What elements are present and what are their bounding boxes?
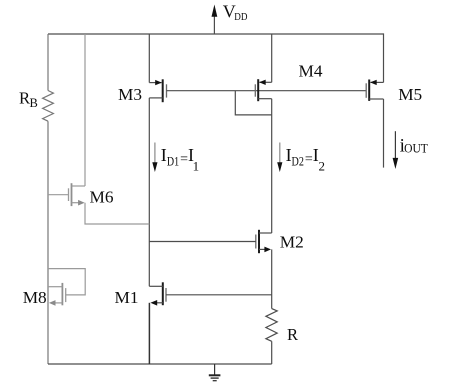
wire: M1 gate to R top node [166,294,272,296]
svg-text:R: R [287,325,299,344]
resistor RB [43,91,54,122]
label ID2 = I2 [286,145,325,174]
current arrow iOUT [393,131,399,169]
svg-text:=: = [180,152,188,167]
transistor M3 (PMOS, leads left to x=149.3) [149,79,166,102]
svg-text:DD: DD [234,12,248,23]
wire: M2 gate line to left column [149,241,256,243]
VDD arrow (supply) [212,5,218,35]
wire: M3 source up to rail [148,34,150,83]
wire: left rail below RB down to bottom rail [47,121,49,364]
wire: R bottom to ground rail [271,341,273,364]
svg-text:B: B [30,96,38,110]
current arrow ID1 [152,143,157,173]
transistor M4 (PMOS, leads right to x=271.7, diode-connected) [255,79,271,101]
wire: M2 source down to resistor R [271,249,273,308]
svg-text:D2: D2 [292,153,304,168]
svg-text:1: 1 [193,158,200,173]
wire: M5 drain down (output) [383,99,385,168]
svg-text:M2: M2 [280,233,304,252]
svg-text:M4: M4 [299,61,323,80]
wire: bottom ground rail [48,363,272,365]
current arrow ID2 [277,143,282,173]
transistor M1 (NMOS, leads left to x=149.3) [149,282,166,305]
svg-text:M5: M5 [398,85,422,104]
wire: M4 drain down to M2 drain (right column) [271,99,273,233]
wire: M3 drain down to M1 drain (left column) [148,98,150,286]
svg-text:M6: M6 [90,188,114,207]
label RB [19,88,38,110]
wire: gate net M3-M4-M5 [167,90,367,92]
transistor M5 (PMOS, leads right to x=383.5) [366,80,383,101]
svg-text:D1: D1 [167,153,179,168]
wire: M1 source down to bottom rail [148,303,150,364]
label VDD [223,2,248,24]
transistor M6 (NMOS, gray, leads right to x=84.6) [48,183,85,206]
wire: M6 drain up to rail [84,34,86,186]
label ID1 = I1 [161,145,199,174]
svg-text:2: 2 [319,158,326,173]
svg-text:=: = [305,152,313,167]
label iOUT [400,136,429,157]
transistor M8 (NMOS, gray, diode-connected, leads left to x=48) [48,269,85,306]
svg-text:M3: M3 [118,85,142,104]
resistor R [266,309,277,342]
ground symbol [209,364,221,381]
wire: M6 source to left column node [85,203,149,224]
svg-text:OUT: OUT [404,141,428,155]
wire: M4 source up to rail [271,34,273,82]
wire: top VDD rail [48,33,384,35]
svg-text:I: I [161,145,167,165]
svg-text:M1: M1 [115,288,139,307]
wire: M5 source up to rail (top right corner) [383,33,385,82]
transistor M2 (NMOS, leads right to x=271.7) [256,230,272,253]
wire: left rail vertical (RB branch), x=48 [47,34,49,91]
wire: M4 gate-drain loop [235,91,271,115]
svg-text:M8: M8 [23,288,47,307]
